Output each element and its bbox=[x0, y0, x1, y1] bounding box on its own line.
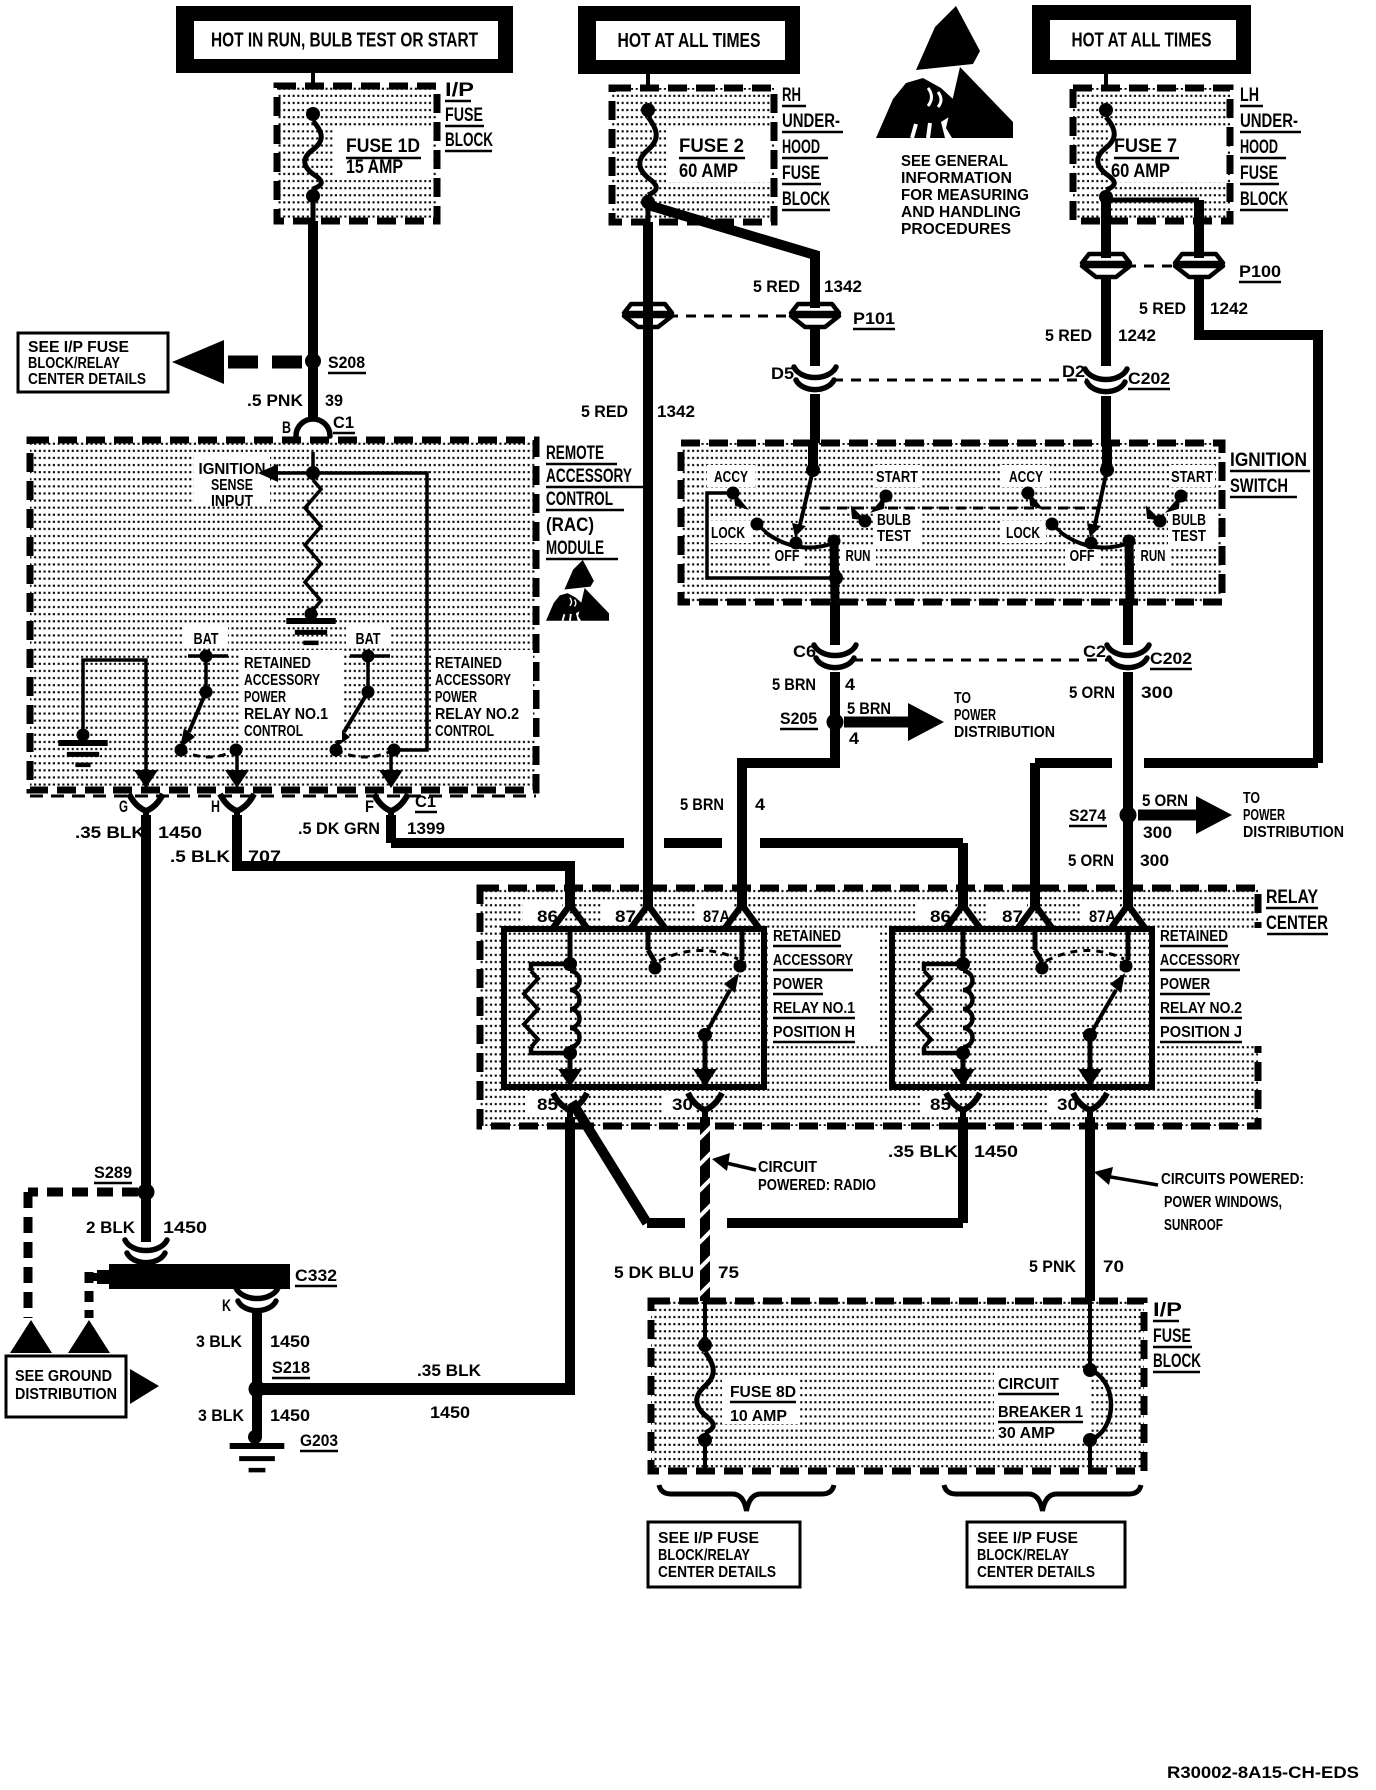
svg-text:.35 BLK: .35 BLK bbox=[888, 1142, 959, 1161]
svg-text:1242: 1242 bbox=[1118, 326, 1156, 345]
svg-text:2 BLK: 2 BLK bbox=[86, 1218, 136, 1237]
svg-text:RH: RH bbox=[782, 85, 801, 106]
connector C202 at D2 (cups) bbox=[1085, 369, 1127, 392]
svg-text:70: 70 bbox=[1103, 1257, 1124, 1276]
svg-text:REMOTE: REMOTE bbox=[546, 443, 604, 464]
I/P fuse block (top) dashed box bbox=[277, 86, 437, 221]
svg-text:5 RED: 5 RED bbox=[1139, 299, 1186, 318]
arrow+label CIRCUIT POWERED: RADIO bbox=[722, 1162, 756, 1170]
wire: S289 down to C332 bbox=[141, 1192, 151, 1242]
dashed link C6 to C2 bbox=[853, 659, 1108, 662]
white knockout FUSE 8D bbox=[722, 1376, 800, 1424]
svg-text:OFF: OFF bbox=[1070, 548, 1095, 565]
svg-text:SEE GENERAL: SEE GENERAL bbox=[901, 153, 1008, 170]
box: SEE I/P FUSE BLOCK/RELAY CENTER DETAILS bbox=[18, 333, 168, 392]
svg-text:BULB: BULB bbox=[1172, 512, 1206, 529]
svg-text:G: G bbox=[119, 797, 128, 816]
svg-text:5 RED: 5 RED bbox=[753, 277, 800, 296]
svg-text:5 PNK: 5 PNK bbox=[1029, 1257, 1077, 1276]
svg-text:LOCK: LOCK bbox=[711, 525, 746, 542]
svg-text:R30002-8A15-CH-EDS: R30002-8A15-CH-EDS bbox=[1167, 1763, 1359, 1782]
wire: relay1 85 to relay2 85 (diagonal+horizontal, hop at radio wire) bbox=[572, 1102, 647, 1223]
svg-text:4: 4 bbox=[845, 675, 856, 694]
svg-text:CENTER: CENTER bbox=[1266, 913, 1328, 934]
svg-text:BLOCK: BLOCK bbox=[445, 130, 493, 151]
svg-text:4: 4 bbox=[849, 729, 860, 748]
small ESD symbol beside RAC labels bbox=[546, 560, 609, 621]
power feed box: HOT AT ALL TIMES (LH) bbox=[1032, 5, 1251, 74]
svg-text:K: K bbox=[222, 1296, 232, 1315]
svg-text:FUSE: FUSE bbox=[1240, 163, 1278, 184]
svg-text:PROCEDURES: PROCEDURES bbox=[901, 221, 1011, 238]
svg-text:S218: S218 bbox=[272, 1358, 310, 1377]
svg-text:P100: P100 bbox=[1239, 262, 1281, 281]
svg-text:RELAY NO.2: RELAY NO.2 bbox=[435, 706, 519, 723]
svg-text:5 ORN: 5 ORN bbox=[1068, 851, 1114, 870]
svg-text:1450: 1450 bbox=[430, 1403, 470, 1422]
wire: ignition RUN to C6 bbox=[830, 602, 840, 645]
svg-text:S274: S274 bbox=[1069, 806, 1107, 825]
svg-text:C202: C202 bbox=[1128, 369, 1170, 388]
svg-text:SWITCH: SWITCH bbox=[1230, 476, 1288, 497]
svg-text:BLOCK/RELAY: BLOCK/RELAY bbox=[658, 1547, 751, 1564]
fuse FUSE 8D 10 AMP element bbox=[703, 1301, 707, 1345]
svg-text:B: B bbox=[282, 418, 291, 437]
svg-text:.5 PNK: .5 PNK bbox=[247, 391, 304, 410]
wire: F output to relay2 86 (with hops) bbox=[386, 815, 396, 843]
wire: far right rail to relay2 87 (with hop) bbox=[1144, 758, 1318, 768]
svg-text:HOT AT ALL TIMES: HOT AT ALL TIMES bbox=[618, 30, 761, 52]
dashed wire: S289 to ground distribution triangle bbox=[28, 1188, 138, 1197]
svg-text:SEE I/P FUSE: SEE I/P FUSE bbox=[977, 1530, 1078, 1547]
svg-text:5 RED: 5 RED bbox=[1045, 326, 1092, 345]
svg-text:I/P: I/P bbox=[1153, 1300, 1182, 1321]
svg-text:1450: 1450 bbox=[270, 1332, 310, 1351]
white knockout ignition sense text bbox=[194, 456, 270, 506]
svg-text:87A: 87A bbox=[1089, 907, 1116, 926]
wire: C202 into ignition switch bbox=[1101, 396, 1111, 443]
svg-text:39: 39 bbox=[325, 391, 343, 410]
svg-text:FUSE: FUSE bbox=[445, 105, 483, 126]
REMOTE ACCESSORY CONTROL (RAC) MODULE dashed box bbox=[30, 440, 536, 790]
wire: H output to relay1 86 bbox=[237, 815, 570, 905]
svg-text:TO: TO bbox=[954, 690, 971, 707]
svg-text:AND HANDLING: AND HANDLING bbox=[901, 204, 1021, 221]
svg-text:RELAY NO.1: RELAY NO.1 bbox=[773, 1000, 855, 1017]
IGNITION SWITCH dashed box bbox=[681, 443, 1222, 602]
svg-text:C2: C2 bbox=[1083, 642, 1106, 661]
svg-text:(RAC): (RAC) bbox=[546, 515, 594, 536]
arrow S205 TO POWER DISTRIBUTION bbox=[844, 717, 908, 728]
svg-text:CIRCUIT: CIRCUIT bbox=[998, 1376, 1059, 1393]
svg-text:1399: 1399 bbox=[407, 819, 445, 838]
svg-text:POSITION J: POSITION J bbox=[1160, 1024, 1242, 1041]
svg-text:SUNROOF: SUNROOF bbox=[1164, 1217, 1223, 1234]
svg-text:HOT AT ALL TIMES: HOT AT ALL TIMES bbox=[1072, 30, 1212, 52]
svg-text:ACCESSORY: ACCESSORY bbox=[773, 952, 854, 969]
resistor: ignition sense pulldown bbox=[305, 480, 321, 610]
svg-text:5 ORN: 5 ORN bbox=[1142, 791, 1188, 810]
svg-text:HOOD: HOOD bbox=[1240, 137, 1278, 158]
svg-text:FUSE 2: FUSE 2 bbox=[679, 136, 744, 157]
wire: HOT box 2 to RH fuse block bbox=[646, 74, 650, 110]
RH underhood fuse block dashed box bbox=[612, 88, 774, 222]
svg-text:BREAKER 1: BREAKER 1 bbox=[998, 1404, 1083, 1421]
svg-text:30: 30 bbox=[1057, 1095, 1078, 1114]
svg-text:86: 86 bbox=[930, 907, 951, 926]
connector D5/ignition (cups) bbox=[794, 367, 836, 390]
svg-text:75: 75 bbox=[718, 1263, 739, 1282]
svg-text:CIRCUITS POWERED:: CIRCUITS POWERED: bbox=[1161, 1171, 1304, 1188]
connector C202 at C2 (cups) bbox=[1107, 645, 1149, 668]
svg-text:1450: 1450 bbox=[158, 823, 202, 842]
svg-text:10 AMP: 10 AMP bbox=[730, 1408, 787, 1425]
grommet P101 left bbox=[624, 304, 672, 327]
dashed link P100 bbox=[1126, 265, 1179, 268]
svg-text:POWERED: RADIO: POWERED: RADIO bbox=[758, 1177, 876, 1194]
svg-text:CONTROL: CONTROL bbox=[546, 489, 613, 510]
box: SEE I/P FUSE details (right) bbox=[967, 1522, 1125, 1587]
svg-text:C6: C6 bbox=[793, 642, 816, 661]
RELAY CENTER dashed box bbox=[480, 888, 1258, 1126]
terminal F of RAC connector C1 bbox=[379, 770, 403, 788]
wire: HOT box 1 to I/P fuse block bbox=[311, 73, 315, 114]
wire: relay2 30 to circuit breaker (5 PNK 70) bbox=[1085, 1117, 1095, 1301]
svg-text:RUN: RUN bbox=[846, 548, 871, 565]
svg-text:CONTROL: CONTROL bbox=[244, 723, 303, 740]
svg-text:ACCESSORY: ACCESSORY bbox=[546, 466, 632, 487]
wire: K to S218 to G203 bbox=[252, 1312, 262, 1437]
svg-text:RELAY: RELAY bbox=[1266, 887, 1318, 908]
svg-text:5 BRN: 5 BRN bbox=[847, 699, 891, 718]
svg-text:RETAINED: RETAINED bbox=[244, 655, 311, 672]
ESD sensitive-device warning symbol bbox=[876, 6, 1013, 138]
svg-text:15 AMP: 15 AMP bbox=[346, 157, 403, 178]
arrow to IGNITION SENSE INPUT text bbox=[277, 471, 313, 475]
svg-text:C332: C332 bbox=[295, 1266, 337, 1285]
wire: S218 to relay ground rail (.35 BLK 1450) bbox=[257, 1383, 570, 1395]
svg-text:ACCY: ACCY bbox=[714, 469, 749, 486]
svg-text:BLOCK: BLOCK bbox=[1240, 189, 1288, 210]
connector C1 terminal B (tent) bbox=[296, 419, 330, 436]
svg-text:FUSE: FUSE bbox=[1153, 1326, 1191, 1347]
ignition switch left bank contacts bbox=[707, 465, 755, 487]
svg-text:POWER: POWER bbox=[435, 689, 477, 706]
node: left ground dot bbox=[77, 729, 90, 742]
svg-text:TEST: TEST bbox=[1172, 528, 1206, 545]
svg-text:LOCK: LOCK bbox=[1006, 525, 1041, 542]
switch: retained accessory power relay no.1 control bbox=[184, 626, 228, 648]
svg-text:1342: 1342 bbox=[824, 277, 862, 296]
svg-text:HOT IN RUN, BULB TEST OR START: HOT IN RUN, BULB TEST OR START bbox=[211, 30, 478, 52]
svg-text:30 AMP: 30 AMP bbox=[998, 1425, 1055, 1442]
ground distribution triangle 1 bbox=[10, 1320, 52, 1353]
wire: P100 left leg (5 RED 1242) bbox=[1101, 197, 1111, 258]
wire: RAC input node bbox=[311, 452, 315, 473]
svg-text:RETAINED: RETAINED bbox=[1160, 928, 1228, 945]
svg-text:C202: C202 bbox=[1150, 649, 1192, 668]
white knockout for FUSE 1D label bbox=[334, 128, 432, 180]
svg-text:IGNITION: IGNITION bbox=[199, 461, 266, 478]
svg-text:5 ORN: 5 ORN bbox=[1069, 683, 1115, 702]
wire: FUSE 2 output down (5 RED 1342) to relay 87 bbox=[646, 202, 651, 222]
svg-text:85: 85 bbox=[537, 1095, 558, 1114]
svg-text:.5 BLK: .5 BLK bbox=[170, 847, 231, 866]
wire: FUSE 7 to right branch inside block bbox=[1106, 198, 1199, 203]
svg-text:OFF: OFF bbox=[775, 548, 800, 565]
svg-text:1450: 1450 bbox=[270, 1406, 310, 1425]
svg-text:300: 300 bbox=[1141, 683, 1173, 702]
box: SEE GROUND DISTRIBUTION bbox=[6, 1356, 126, 1417]
svg-text:5 DK BLU: 5 DK BLU bbox=[614, 1263, 694, 1282]
svg-text:DISTRIBUTION: DISTRIBUTION bbox=[1243, 824, 1344, 841]
ground: RAC internal (resistor) bbox=[286, 618, 335, 624]
wire: right branch to far right rail bbox=[1199, 277, 1318, 763]
wire: P100 to C202 bbox=[1101, 277, 1111, 366]
svg-text:RETAINED: RETAINED bbox=[773, 928, 841, 945]
terminal H of RAC connector C1 bbox=[225, 770, 249, 788]
svg-text:FUSE 1D: FUSE 1D bbox=[346, 136, 420, 157]
wire: FUSE 1D output down to RAC module bbox=[311, 196, 316, 221]
wire+ground: relay no.1 control left branch bbox=[83, 660, 146, 790]
svg-text:I/P: I/P bbox=[445, 80, 474, 101]
svg-text:5 BRN: 5 BRN bbox=[772, 675, 816, 694]
I/P fuse block (bottom) dashed box bbox=[651, 1301, 1144, 1471]
dashed wire: C332 to ground distribution triangle 2 bbox=[86, 1273, 97, 1281]
svg-text:SEE I/P FUSE: SEE I/P FUSE bbox=[658, 1530, 759, 1547]
ignition switch right bank contacts bbox=[1002, 465, 1050, 487]
svg-text:SENSE: SENSE bbox=[211, 477, 253, 494]
svg-text:.35 BLK: .35 BLK bbox=[75, 823, 146, 842]
switch: retained accessory power relay no.2 control bbox=[346, 626, 390, 648]
svg-text:C1: C1 bbox=[333, 413, 354, 432]
arrow+label CIRCUITS POWERED: POWER WINDOWS SUNROOF bbox=[1105, 1176, 1158, 1185]
wire: P101 to D5 bbox=[810, 327, 820, 366]
white knockout for FUSE 2 label bbox=[667, 128, 770, 182]
svg-text:LH: LH bbox=[1240, 85, 1259, 106]
brace under CIRCUIT BREAKER bbox=[944, 1485, 1141, 1511]
svg-text:87: 87 bbox=[1002, 907, 1023, 926]
arrow into RAC module bbox=[301, 440, 325, 458]
thin dashed connector face line under RAC box bbox=[30, 795, 536, 798]
svg-text:85: 85 bbox=[930, 1095, 951, 1114]
svg-text:ACCESSORY: ACCESSORY bbox=[1160, 952, 1241, 969]
arrowhead to SEE I/P FUSE BLOCK details bbox=[172, 340, 224, 384]
fuse FUSE 7 60 AMP element bbox=[1099, 103, 1113, 117]
svg-text:60 AMP: 60 AMP bbox=[679, 161, 738, 182]
svg-text:DISTRIBUTION: DISTRIBUTION bbox=[15, 1386, 117, 1403]
ground: RAC internal (left) bbox=[58, 740, 107, 746]
svg-text:HOOD: HOOD bbox=[782, 137, 820, 158]
wire: C2 to S274 to relay2 87A bbox=[1123, 672, 1133, 905]
power feed box: HOT AT ALL TIMES (RH) bbox=[578, 6, 800, 74]
svg-text:FUSE 8D: FUSE 8D bbox=[730, 1384, 796, 1401]
splice S289 bbox=[138, 1184, 155, 1201]
svg-text:87: 87 bbox=[615, 907, 636, 926]
svg-text:5 RED: 5 RED bbox=[581, 402, 628, 421]
white knockout for FUSE 7 label bbox=[1110, 128, 1226, 182]
svg-text:FOR MEASURING: FOR MEASURING bbox=[901, 187, 1029, 204]
svg-text:3 BLK: 3 BLK bbox=[198, 1406, 245, 1425]
svg-text:POWER: POWER bbox=[954, 707, 996, 724]
connector C332 cups (top) bbox=[125, 1240, 167, 1263]
connector C332 terminal K cups (bottom) bbox=[236, 1288, 278, 1311]
relay: RETAINED ACCESSORY POWER RELAY NO.2 POSITION J bbox=[958, 882, 968, 907]
svg-text:S208: S208 bbox=[328, 353, 365, 372]
svg-text:TEST: TEST bbox=[877, 528, 911, 545]
wire: relay1 30 to FUSE 8D (striped, 5 DK BLU 75) bbox=[700, 1117, 710, 1301]
svg-text:300: 300 bbox=[1143, 823, 1172, 842]
ground G203 bbox=[248, 1430, 262, 1444]
power feed box: HOT IN RUN, BULB TEST OR START bbox=[176, 6, 513, 73]
svg-text:1342: 1342 bbox=[657, 402, 695, 421]
svg-text:F: F bbox=[365, 797, 374, 816]
svg-text:POWER WINDOWS,: POWER WINDOWS, bbox=[1164, 1194, 1282, 1211]
svg-text:INFORMATION: INFORMATION bbox=[901, 170, 1012, 187]
svg-text:S205: S205 bbox=[780, 709, 817, 728]
svg-text:C1: C1 bbox=[415, 792, 436, 811]
white knockout relay no.2 control text bbox=[431, 650, 533, 740]
node: resistor bottom bbox=[305, 608, 318, 621]
wire: HOT box 3 to LH fuse block bbox=[1104, 74, 1108, 110]
LH underhood fuse block dashed box bbox=[1073, 88, 1230, 221]
fuse FUSE 1D 15 AMP element bbox=[306, 107, 320, 121]
ground distribution triangle 2 bbox=[68, 1320, 110, 1353]
box: SEE I/P FUSE details (left) bbox=[648, 1522, 800, 1587]
wire: ignition RUN right to C2 bbox=[1123, 602, 1133, 645]
terminal G of RAC connector C1 bbox=[134, 770, 158, 788]
svg-text:5 BRN: 5 BRN bbox=[680, 795, 724, 814]
dashed link D5 to D2 bbox=[833, 379, 1088, 382]
relay: RETAINED ACCESSORY POWER RELAY NO.1 POSITION H bbox=[565, 882, 575, 907]
svg-text:FUSE 7: FUSE 7 bbox=[1114, 136, 1177, 157]
svg-text:60 AMP: 60 AMP bbox=[1111, 161, 1170, 182]
svg-text:UNDER-: UNDER- bbox=[1240, 111, 1298, 132]
svg-text:.35 BLK: .35 BLK bbox=[417, 1361, 482, 1380]
svg-text:SEE I/P FUSE: SEE I/P FUSE bbox=[28, 339, 129, 356]
grommet P101 right bbox=[791, 304, 839, 327]
wire: D5 into ignition switch bbox=[810, 394, 820, 443]
splice S205 bbox=[827, 714, 844, 731]
svg-text:BLOCK/RELAY: BLOCK/RELAY bbox=[28, 355, 121, 372]
svg-text:1450: 1450 bbox=[163, 1218, 207, 1237]
svg-text:BULB: BULB bbox=[877, 512, 911, 529]
grommet P100 right bbox=[1175, 254, 1223, 277]
svg-text:300: 300 bbox=[1140, 851, 1169, 870]
svg-text:30: 30 bbox=[672, 1095, 693, 1114]
svg-text:RETAINED: RETAINED bbox=[435, 655, 502, 672]
svg-text:IGNITION: IGNITION bbox=[1230, 450, 1307, 471]
svg-text:ACCY: ACCY bbox=[1009, 469, 1044, 486]
wire: G output down to S289 bbox=[141, 815, 151, 1192]
splice S218 bbox=[249, 1381, 266, 1398]
svg-text:RELAY NO.2: RELAY NO.2 bbox=[1160, 1000, 1242, 1017]
wire: sense line to relay no.2 control bbox=[313, 473, 427, 750]
white knockout relay no.1 control text bbox=[240, 650, 342, 740]
svg-text:POWER: POWER bbox=[773, 976, 823, 993]
svg-text:POWER: POWER bbox=[1243, 807, 1285, 824]
svg-text:S289: S289 bbox=[94, 1163, 132, 1182]
svg-text:87A: 87A bbox=[703, 907, 730, 926]
dashed link P101 bbox=[668, 315, 795, 318]
white knockout CIRCUIT BREAKER bbox=[994, 1370, 1090, 1442]
fuse FUSE 2 60 AMP element bbox=[641, 103, 655, 117]
svg-text:POWER: POWER bbox=[1160, 976, 1210, 993]
svg-text:POSITION H: POSITION H bbox=[773, 1024, 855, 1041]
svg-text:3 BLK: 3 BLK bbox=[196, 1332, 243, 1351]
svg-text:ACCESSORY: ACCESSORY bbox=[435, 672, 512, 689]
svg-text:UNDER-: UNDER- bbox=[782, 111, 840, 132]
svg-text:SEE GROUND: SEE GROUND bbox=[15, 1368, 112, 1385]
svg-text:CONTROL: CONTROL bbox=[435, 723, 494, 740]
svg-text:D5: D5 bbox=[771, 364, 794, 383]
svg-text:G203: G203 bbox=[300, 1431, 338, 1450]
svg-text:1450: 1450 bbox=[974, 1142, 1018, 1161]
dashed mechanical linkage between wipers bbox=[820, 507, 1100, 510]
bar: connector C332 bbox=[97, 1270, 109, 1284]
svg-text:CENTER DETAILS: CENTER DETAILS bbox=[658, 1564, 776, 1581]
dashed wire stub to I/P fuse details arrow bbox=[228, 356, 305, 369]
svg-text:86: 86 bbox=[537, 907, 558, 926]
svg-text:ACCESSORY: ACCESSORY bbox=[244, 672, 321, 689]
svg-text:CIRCUIT: CIRCUIT bbox=[758, 1159, 817, 1176]
wire: relay1 85 to ground rail (down) bbox=[565, 1117, 575, 1395]
svg-text:TO: TO bbox=[1243, 790, 1260, 807]
svg-text:BAT: BAT bbox=[194, 631, 219, 648]
svg-text:1242: 1242 bbox=[1210, 299, 1248, 318]
arrow S274 TO POWER DISTRIBUTION bbox=[1138, 810, 1196, 821]
brace under FUSE 8D bbox=[659, 1485, 834, 1511]
arrowhead right of SEE GROUND DISTRIBUTION bbox=[130, 1369, 159, 1404]
wire: FUSE 2 diagonal branch to P101 bbox=[648, 205, 815, 308]
svg-text:CENTER DETAILS: CENTER DETAILS bbox=[977, 1564, 1095, 1581]
svg-text:INPUT: INPUT bbox=[211, 493, 253, 510]
svg-text:RUN: RUN bbox=[1141, 548, 1166, 565]
svg-text:MODULE: MODULE bbox=[546, 538, 604, 559]
svg-text:FUSE: FUSE bbox=[782, 163, 820, 184]
svg-text:BAT: BAT bbox=[356, 631, 381, 648]
svg-text:START: START bbox=[1171, 469, 1213, 486]
grommet P100 left bbox=[1082, 254, 1130, 277]
svg-text:H: H bbox=[211, 797, 220, 816]
svg-text:BLOCK: BLOCK bbox=[782, 189, 830, 210]
circuit breaker 1 element bbox=[1088, 1301, 1092, 1370]
svg-text:D2: D2 bbox=[1062, 362, 1085, 381]
splice S274 bbox=[1120, 807, 1137, 824]
svg-text:CENTER DETAILS: CENTER DETAILS bbox=[28, 371, 146, 388]
svg-text:POWER: POWER bbox=[244, 689, 286, 706]
svg-text:DISTRIBUTION: DISTRIBUTION bbox=[954, 724, 1055, 741]
svg-text:P101: P101 bbox=[853, 309, 895, 328]
svg-text:BLOCK/RELAY: BLOCK/RELAY bbox=[977, 1547, 1070, 1564]
svg-text:BLOCK: BLOCK bbox=[1153, 1351, 1201, 1372]
svg-text:4: 4 bbox=[755, 795, 766, 814]
svg-text:START: START bbox=[876, 469, 918, 486]
node: ignition sense junction bbox=[306, 466, 320, 480]
splice S208 bbox=[305, 353, 321, 369]
wire: C6 to S205 to relay 87A bbox=[742, 672, 835, 905]
svg-text:RELAY NO.1: RELAY NO.1 bbox=[244, 706, 328, 723]
connector C6 (cups) bbox=[814, 645, 856, 668]
svg-text:.5 DK GRN: .5 DK GRN bbox=[298, 819, 380, 838]
